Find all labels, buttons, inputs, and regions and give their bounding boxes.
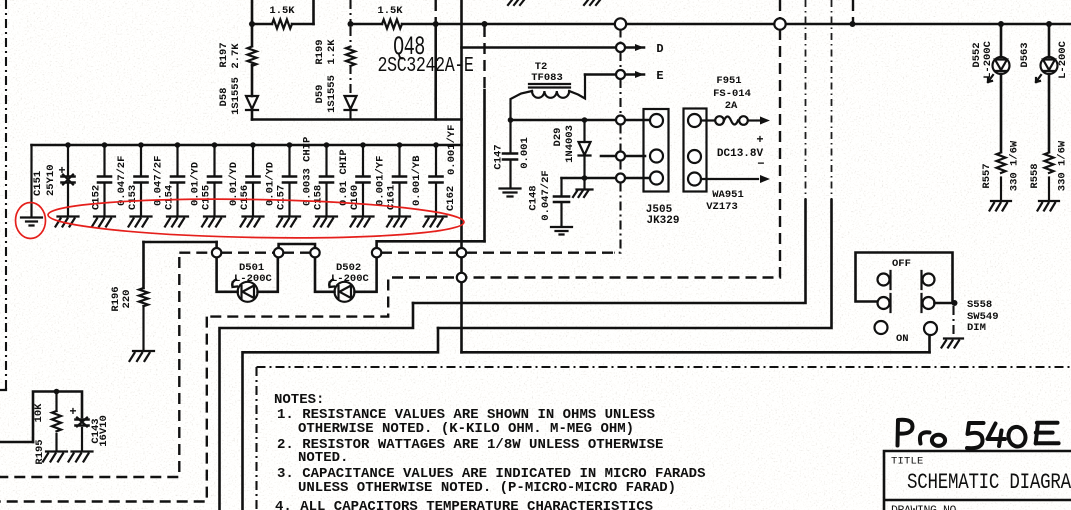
svg-text:+: + [58, 164, 65, 178]
svg-text:2SC3242A-E: 2SC3242A-E [378, 53, 474, 77]
svg-text:C153: C153 [127, 185, 139, 210]
svg-text:S558: S558 [967, 299, 992, 311]
svg-text:−: − [757, 157, 764, 171]
svg-text:1S1555: 1S1555 [230, 77, 242, 115]
svg-text:0.01 CHIP: 0.01 CHIP [338, 149, 350, 206]
svg-text:D58: D58 [218, 88, 230, 107]
svg-text:OTHERWISE NOTED. (K-KILO OHM.: OTHERWISE NOTED. (K-KILO OHM. M-MEG OHM) [298, 421, 634, 437]
svg-text:2.7K: 2.7K [230, 43, 242, 69]
svg-text:0.047/2F: 0.047/2F [540, 170, 552, 220]
svg-text:C160: C160 [349, 185, 361, 210]
svg-text:+: + [69, 405, 76, 419]
svg-text:C156: C156 [239, 185, 251, 210]
svg-text:D29: D29 [552, 128, 564, 147]
svg-text:UNLESS OTHERWISE NOTED. (P-MIC: UNLESS OTHERWISE NOTED. (P-MICRO-MICRO F… [298, 480, 676, 496]
svg-text:0.047/2F: 0.047/2F [116, 156, 128, 206]
svg-text:C152: C152 [91, 185, 103, 210]
svg-text:R197: R197 [218, 42, 230, 67]
svg-text:L-200C: L-200C [234, 273, 273, 285]
svg-text:R195: R195 [34, 439, 46, 464]
svg-text:D563: D563 [1019, 42, 1031, 67]
svg-text:R558: R558 [1029, 163, 1041, 188]
svg-text:NOTED.: NOTED. [298, 450, 348, 466]
svg-text:L-200C: L-200C [331, 273, 370, 285]
svg-text:L-200C: L-200C [1057, 40, 1069, 79]
svg-text:0.001/YB: 0.001/YB [411, 155, 423, 206]
svg-text:C155: C155 [201, 185, 213, 210]
svg-text:25Y10: 25Y10 [45, 164, 57, 196]
svg-text:0.001/YF: 0.001/YF [446, 125, 458, 175]
svg-text:1.5K: 1.5K [269, 5, 295, 17]
svg-text:0.001: 0.001 [519, 137, 531, 169]
svg-text:WA951: WA951 [712, 189, 744, 201]
svg-text:330 1/6W: 330 1/6W [1009, 140, 1021, 191]
svg-text:L-200C: L-200C [982, 40, 994, 79]
svg-text:DRAWING NO: DRAWING NO [891, 505, 957, 510]
svg-text:10K: 10K [33, 403, 45, 423]
svg-text:220: 220 [121, 290, 133, 309]
svg-text:C147: C147 [493, 144, 505, 169]
svg-text:ON: ON [896, 333, 909, 345]
svg-text:1.2K: 1.2K [326, 39, 338, 65]
svg-text:TITLE: TITLE [891, 456, 924, 468]
svg-text:C157: C157 [276, 185, 288, 210]
svg-text:R557: R557 [981, 163, 993, 188]
svg-text:+: + [756, 133, 763, 147]
svg-text:C162: C162 [445, 186, 457, 211]
svg-text:0.001/YF: 0.001/YF [375, 156, 387, 206]
svg-text:4. ALL CAPACITORS TEMPERATURE: 4. ALL CAPACITORS TEMPERATURE CHARACTERI… [275, 499, 653, 510]
svg-text:C158: C158 [313, 185, 325, 210]
svg-text:0.047/2F: 0.047/2F [153, 156, 165, 206]
svg-text:F951: F951 [716, 75, 741, 87]
svg-text:VZ173: VZ173 [706, 201, 738, 213]
svg-text:1N4003: 1N4003 [564, 125, 576, 163]
svg-text:C154: C154 [164, 185, 176, 210]
svg-text:C148: C148 [528, 185, 540, 210]
svg-text:JK329: JK329 [646, 215, 679, 227]
svg-text:1.5K: 1.5K [377, 5, 403, 17]
svg-text:D59: D59 [314, 85, 326, 104]
svg-text:2A: 2A [725, 100, 738, 112]
svg-text:D: D [656, 42, 663, 56]
svg-text:330 1/6W: 330 1/6W [1057, 140, 1069, 191]
svg-text:C151: C151 [32, 171, 44, 196]
svg-text:E: E [656, 69, 663, 83]
svg-text:DIM: DIM [967, 322, 986, 334]
svg-text:0.0033 CHIP: 0.0033 CHIP [302, 137, 314, 206]
svg-text:FS-014: FS-014 [713, 88, 751, 100]
svg-text:TF083: TF083 [531, 72, 563, 84]
svg-text:OFF: OFF [892, 258, 911, 270]
svg-text:1S1555: 1S1555 [326, 75, 338, 113]
svg-text:NOTES:: NOTES: [274, 392, 324, 408]
svg-text:R199: R199 [314, 39, 326, 64]
svg-text:16V10: 16V10 [98, 415, 110, 447]
svg-text:SCHEMATIC DIAGRAM: SCHEMATIC DIAGRAM [907, 470, 1071, 496]
